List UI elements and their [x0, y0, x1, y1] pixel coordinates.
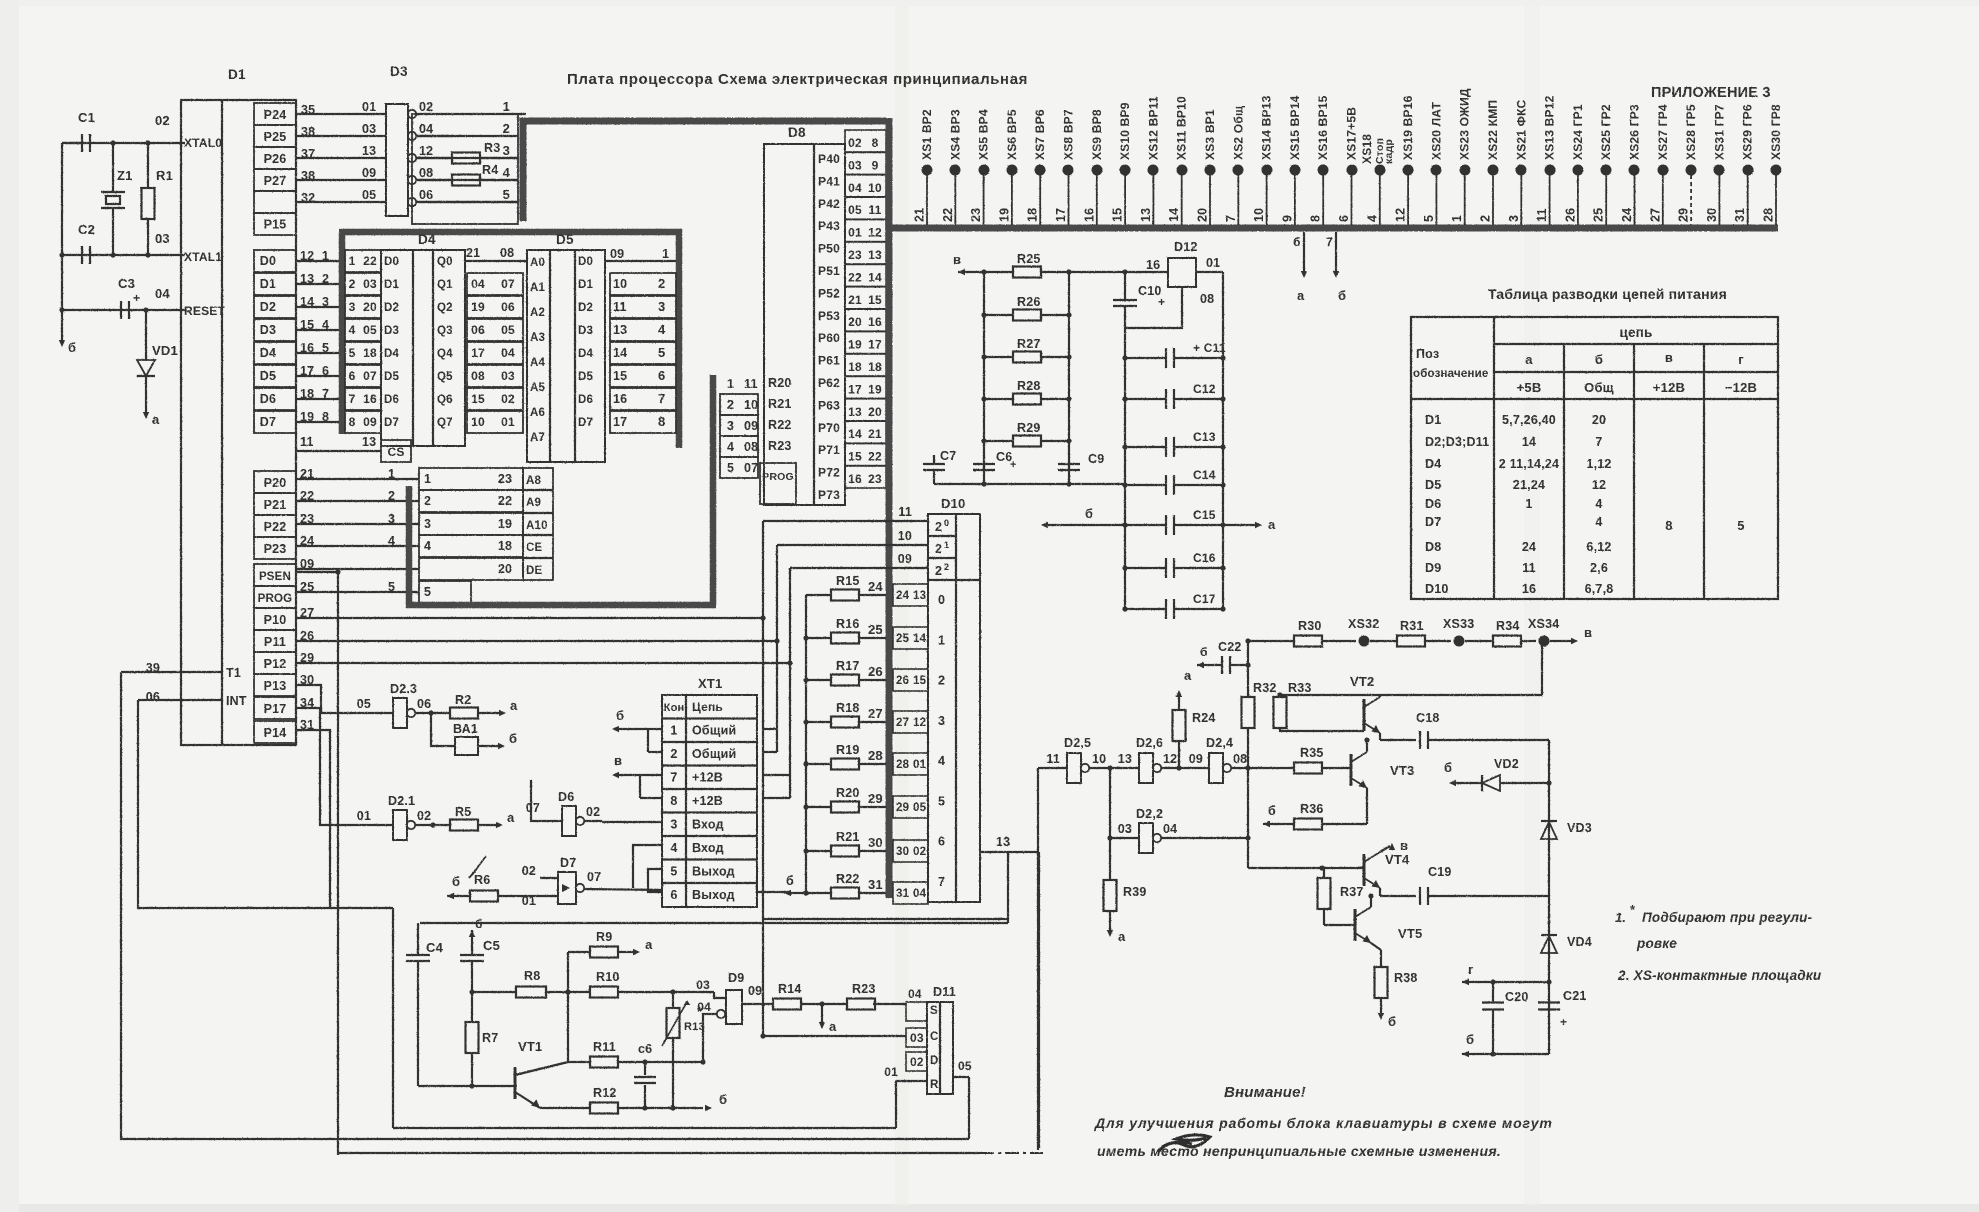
- link cell 06 05 (D4-D5 row 3): [467, 319, 523, 341]
- svg-text:XS11 ВР10: XS11 ВР10: [1175, 96, 1189, 160]
- svg-text:P52: P52: [818, 286, 840, 300]
- power table row D1: [1425, 413, 1606, 427]
- svg-text:XS23 ОЖИД: XS23 ОЖИД: [1458, 88, 1472, 160]
- D5 cell A7: [530, 432, 545, 444]
- svg-text:Q0: Q0: [437, 256, 453, 268]
- svg-text:09: 09: [363, 415, 377, 429]
- svg-text:17: 17: [471, 346, 485, 360]
- svg-text:VT1: VT1: [518, 1039, 542, 1054]
- flip-flop D11: [927, 985, 956, 1094]
- svg-text:XS26 ГР3: XS26 ГР3: [1628, 104, 1642, 160]
- svg-text:+12В: +12В: [692, 794, 723, 808]
- D8 pin cell 04 10: [845, 175, 886, 197]
- keyboard box top: [420, 922, 1008, 924]
- svg-text:09: 09: [748, 984, 762, 998]
- capacitor C1: [62, 110, 95, 152]
- svg-text:Выход: Выход: [692, 888, 735, 902]
- svg-text:3: 3: [1507, 215, 1521, 222]
- pin number 34: [300, 696, 314, 710]
- wire D9 input 03: [714, 992, 726, 998]
- svg-text:P73: P73: [818, 488, 840, 502]
- resistor R14: [742, 982, 847, 1010]
- svg-text:D11: D11: [933, 985, 956, 999]
- svg-text:б: б: [1085, 506, 1093, 521]
- svg-text:R18: R18: [836, 701, 860, 715]
- svg-text:5,7,26,40: 5,7,26,40: [1502, 413, 1556, 427]
- svg-text:17: 17: [848, 382, 862, 396]
- svg-text:09: 09: [362, 166, 376, 180]
- svg-text:08: 08: [419, 166, 433, 180]
- svg-text:01: 01: [848, 226, 862, 240]
- D10 cell 5: [938, 794, 945, 808]
- svg-text:XS4 ВР3: XS4 ВР3: [948, 109, 962, 160]
- wire XTAL0 net: [62, 140, 185, 310]
- svg-text:28: 28: [1762, 208, 1776, 222]
- wire D6 input: [531, 780, 562, 821]
- svg-text:09: 09: [1189, 752, 1203, 766]
- pin cell P22: [254, 515, 296, 537]
- svg-text:05: 05: [913, 802, 927, 814]
- svg-text:03: 03: [501, 369, 515, 383]
- svg-text:XTAL1: XTAL1: [184, 250, 222, 264]
- svg-text:D2: D2: [260, 300, 276, 314]
- svg-text:б: б: [1338, 288, 1346, 303]
- svg-text:D7: D7: [260, 415, 276, 429]
- svg-text:P12: P12: [264, 657, 287, 671]
- svg-text:20: 20: [1196, 208, 1210, 222]
- bus cell 1 22 (D4 input row 0): [345, 250, 381, 272]
- D5 cell D2 in: [578, 302, 593, 314]
- D5 cell A3: [530, 332, 545, 344]
- svg-text:29: 29: [896, 802, 909, 814]
- IC D4 body: [381, 232, 465, 446]
- inverter D2.6: [1118, 736, 1178, 783]
- IC D12: [1146, 240, 1220, 306]
- D10 cell 2:1: [935, 540, 949, 556]
- svg-text:13: 13: [848, 405, 862, 419]
- wire VT1 emitter: [515, 1092, 590, 1108]
- svg-text:27: 27: [1648, 208, 1662, 222]
- D8 cell P43: [818, 219, 840, 233]
- svg-text:P20: P20: [264, 476, 287, 490]
- svg-text:Q7: Q7: [437, 417, 453, 429]
- wire center rail: [565, 952, 570, 1062]
- svg-text:12: 12: [1163, 752, 1177, 766]
- svg-text:08: 08: [1200, 292, 1214, 306]
- svg-text:R7: R7: [482, 1031, 498, 1045]
- connector pad XS15 (XS15 ВР14): [1280, 95, 1302, 225]
- IC D1 body: [181, 67, 296, 745]
- svg-text:21,24: 21,24: [1513, 478, 1545, 492]
- svg-text:P41: P41: [818, 174, 840, 188]
- wire P10 trunk: [296, 615, 766, 620]
- D8 pin cell 20 16: [845, 309, 886, 331]
- svg-text:XS9 ВР8: XS9 ВР8: [1090, 109, 1104, 160]
- svg-text:C1: C1: [78, 110, 95, 125]
- svg-text:T1: T1: [226, 666, 241, 680]
- resistor R1: [142, 143, 174, 255]
- svg-text:а: а: [507, 810, 515, 825]
- svg-text:18: 18: [498, 539, 512, 553]
- diode VD3: [1541, 821, 1592, 839]
- svg-text:14: 14: [613, 346, 627, 360]
- connector pad XS22 (XS22 КМП): [1479, 100, 1501, 225]
- D5 cell A0: [530, 257, 545, 269]
- wire INT feed: [138, 700, 393, 908]
- svg-text:A7: A7: [530, 432, 545, 444]
- D8 cell P51: [818, 264, 840, 278]
- svg-text:4: 4: [349, 323, 356, 337]
- svg-text:19: 19: [997, 208, 1011, 222]
- side note 1: [1615, 902, 1813, 951]
- connector pad XS3 (XS3 ВР1): [1196, 109, 1218, 225]
- svg-text:09: 09: [744, 419, 758, 433]
- svg-text:21: 21: [913, 208, 927, 222]
- svg-text:P14: P14: [264, 726, 287, 740]
- svg-text:P21: P21: [264, 498, 287, 512]
- svg-text:P22: P22: [264, 520, 287, 534]
- svg-text:в: в: [1584, 625, 1592, 640]
- bus cell 8 09 (D4 input row 7): [345, 411, 381, 433]
- wire P14 stub: [296, 730, 330, 908]
- svg-text:PROG: PROG: [258, 593, 293, 605]
- svg-text:C5: C5: [483, 938, 500, 953]
- svg-text:A9: A9: [526, 497, 541, 509]
- connector pad XS26 (XS26 ГР3): [1620, 104, 1642, 225]
- D8 left pin cell 2 10: [720, 394, 758, 415]
- arrow б (R22 rail): [784, 874, 806, 896]
- wire D12 pin16: [1125, 271, 1168, 273]
- svg-text:б: б: [1200, 645, 1208, 659]
- svg-text:P23: P23: [264, 542, 287, 556]
- D10 cell 2:2: [935, 562, 949, 578]
- svg-text:D1: D1: [228, 67, 246, 82]
- svg-text:P70: P70: [818, 421, 840, 435]
- capacitor C21: [1538, 989, 1587, 1029]
- keyboard box left: [392, 908, 394, 1128]
- svg-text:Подбирают при регули-: Подбирают при регули-: [1642, 910, 1813, 925]
- svg-text:5: 5: [349, 346, 356, 360]
- svg-text:в: в: [953, 252, 961, 267]
- resistor R18: [803, 701, 928, 733]
- svg-text:Таблица разводки цепей пита: Таблица разводки цепей питания: [1488, 286, 1727, 302]
- D8 pin cell 05 11: [845, 197, 886, 219]
- svg-text:XS13 ВР12: XS13 ВР12: [1543, 95, 1557, 160]
- svg-text:ПРИЛОЖЕНИЕ 3: ПРИЛОЖЕНИЕ 3: [1651, 85, 1771, 101]
- D11 pin 05: [953, 1059, 972, 1077]
- svg-text:R35: R35: [1300, 746, 1324, 760]
- pin number 27: [300, 606, 314, 620]
- pin cell P25 / pin 38: [254, 125, 386, 147]
- svg-text:D5: D5: [578, 371, 594, 383]
- svg-text:R3: R3: [484, 141, 500, 155]
- thick frame around D4-D5 top: [339, 229, 682, 236]
- arrow а (R14/R23): [819, 1001, 837, 1034]
- svg-text:1: 1: [944, 540, 949, 550]
- svg-text:R14: R14: [778, 982, 802, 996]
- svg-text:R26: R26: [1017, 295, 1041, 309]
- P2x long cell row 1 (pins 22): [296, 489, 523, 512]
- svg-text:8: 8: [1665, 518, 1672, 533]
- resistor R4: [416, 163, 518, 186]
- thick horizontal XS bus: [886, 225, 1778, 232]
- D8 PROG cell: [760, 463, 796, 504]
- svg-text:C18: C18: [1416, 711, 1440, 725]
- svg-text:XS8 ВР7: XS8 ВР7: [1062, 109, 1076, 160]
- svg-text:P43: P43: [818, 219, 840, 233]
- thick frame bottom of D4/D5 block: [406, 375, 716, 605]
- svg-text:R34: R34: [1496, 619, 1520, 633]
- D8 pin cell 03 9: [845, 152, 886, 174]
- arrow б bottom: [1462, 1032, 1549, 1057]
- svg-text:01: 01: [884, 1065, 898, 1079]
- svg-text:18: 18: [1026, 208, 1040, 222]
- svg-text:а: а: [829, 1019, 837, 1034]
- svg-text:г: г: [1468, 962, 1474, 977]
- D8 pin cell 17 19: [845, 376, 886, 398]
- svg-text:24: 24: [1620, 208, 1634, 222]
- svg-text:15: 15: [613, 369, 627, 383]
- resistor R23: [847, 982, 906, 1010]
- pin cell PSEN: [254, 564, 296, 586]
- wire D2.2 out: [1161, 837, 1248, 839]
- D3 output bubble pin 02: [408, 100, 434, 118]
- D3 output bubble pin 12: [408, 144, 434, 162]
- svg-text:P50: P50: [818, 242, 840, 256]
- svg-text:2: 2: [935, 564, 942, 578]
- svg-text:14: 14: [868, 270, 882, 284]
- svg-text:15: 15: [913, 675, 927, 687]
- svg-text:R20: R20: [836, 786, 860, 800]
- svg-text:в: в: [1665, 350, 1673, 365]
- D8 cell P73: [818, 488, 840, 502]
- resistor R23 (in D8): [768, 439, 792, 453]
- svg-text:15: 15: [848, 450, 862, 464]
- svg-text:D0: D0: [260, 254, 276, 268]
- svg-text:D0: D0: [384, 256, 399, 268]
- svg-text:R13: R13: [684, 1021, 705, 1033]
- svg-text:18: 18: [868, 360, 882, 374]
- svg-text:15: 15: [868, 293, 882, 307]
- svg-text:D3: D3: [578, 325, 593, 337]
- svg-text:27: 27: [868, 706, 883, 721]
- connector pad XS5 (XS5 ВР4): [969, 109, 991, 225]
- resistor R17: [803, 659, 928, 691]
- pad XS32: [1348, 617, 1379, 647]
- svg-text:22: 22: [363, 254, 377, 268]
- svg-text:11: 11: [898, 505, 912, 519]
- svg-text:R23: R23: [768, 439, 792, 453]
- svg-text:D6: D6: [578, 394, 593, 406]
- D8 pin cell 15 22: [845, 444, 886, 466]
- svg-text:D7: D7: [578, 417, 593, 429]
- thick frame right of D5: [676, 229, 683, 448]
- svg-text:D2: D2: [578, 302, 593, 314]
- D4 cell D0: [384, 256, 399, 268]
- wire X71 pin4: [633, 845, 662, 888]
- connector pad XS25 (XS25 ГР2): [1592, 104, 1614, 225]
- svg-text:P63: P63: [818, 398, 840, 412]
- connector pad XS7 (XS7 ВР6): [1026, 109, 1048, 225]
- svg-text:б: б: [786, 874, 794, 888]
- svg-text:02: 02: [417, 809, 431, 823]
- svg-text:2: 2: [944, 562, 949, 572]
- svg-text:3: 3: [727, 419, 734, 433]
- D8 cell P41: [818, 174, 840, 188]
- svg-text:C3: C3: [118, 276, 135, 291]
- pin label 03: [155, 231, 170, 246]
- svg-text:P13: P13: [264, 679, 287, 693]
- svg-text:D5: D5: [1425, 478, 1441, 492]
- svg-text:13: 13: [1139, 208, 1153, 222]
- wire VT5 collector: [1370, 896, 1372, 907]
- power table row D2;D3;D11: [1425, 435, 1603, 449]
- pin cell P21: [254, 493, 296, 515]
- D4 cell Q4: [437, 348, 453, 360]
- bus cell 6 07 (D4 input row 5): [345, 365, 381, 387]
- pin label 04: [155, 286, 170, 301]
- svg-text:3: 3: [424, 517, 431, 531]
- svg-text:P51: P51: [818, 264, 840, 278]
- bus cell 3 20 (D4 input row 2): [345, 296, 381, 318]
- arrow а (C15 row right): [1223, 517, 1276, 532]
- svg-text:23: 23: [868, 472, 882, 486]
- pin cell P27 / pin 38: [254, 169, 386, 191]
- svg-text:C17: C17: [1193, 592, 1216, 606]
- svg-text:б: б: [1466, 1032, 1474, 1047]
- D4 cell D3: [384, 325, 399, 337]
- svg-text:04: 04: [908, 987, 922, 1001]
- connector pad XS21 (XS21 ФКС): [1507, 100, 1529, 225]
- svg-text:б: б: [1293, 235, 1301, 249]
- svg-text:8: 8: [1309, 215, 1323, 222]
- bus cell 4 05 (D4 input row 3): [345, 319, 381, 341]
- connector pad XS30 (XS30 ГР8): [1762, 104, 1784, 225]
- wire D6 output: [584, 821, 602, 822]
- svg-text:D6: D6: [1425, 497, 1441, 511]
- D4 cell Q0: [437, 256, 453, 268]
- connector pad XS27 (XS27 ГР4): [1648, 104, 1670, 225]
- svg-text:C4: C4: [426, 940, 444, 955]
- wire D7 output: [584, 889, 662, 890]
- svg-text:6: 6: [670, 888, 677, 902]
- capacitor C7: [923, 449, 956, 484]
- svg-text:C15: C15: [1193, 508, 1216, 522]
- svg-text:7: 7: [670, 771, 677, 785]
- svg-text:P24: P24: [264, 108, 287, 122]
- D8 pin cell 13 20: [845, 399, 886, 421]
- svg-text:20: 20: [363, 300, 377, 314]
- svg-text:VT3: VT3: [1390, 763, 1414, 778]
- arrow а below VD1: [143, 376, 160, 427]
- svg-text:XS18: XS18: [1360, 134, 1374, 164]
- svg-text:Вход: Вход: [692, 818, 724, 832]
- svg-text:17: 17: [613, 415, 627, 429]
- D4 cell D4: [384, 348, 400, 360]
- svg-text:1: 1: [424, 472, 431, 486]
- inverter D2.5: [1046, 736, 1106, 783]
- resistor R3: [416, 141, 518, 164]
- svg-text:в: в: [1400, 838, 1408, 853]
- pad XS34: [1528, 617, 1559, 647]
- svg-text:25: 25: [896, 633, 910, 645]
- D3 output bubble pin 04: [408, 122, 434, 140]
- svg-text:A5: A5: [530, 382, 546, 394]
- resistor R22: [803, 872, 928, 904]
- svg-text:Внимание!: Внимание!: [1224, 1084, 1306, 1101]
- svg-text:04: 04: [501, 346, 515, 360]
- svg-text:19: 19: [471, 300, 485, 314]
- bus net 6 drop arrow а: [1293, 232, 1307, 303]
- scribble over word: [1158, 1135, 1210, 1152]
- wire D3 out 1: [416, 113, 526, 115]
- svg-text:XS10 ВР9: XS10 ВР9: [1118, 102, 1132, 160]
- svg-text:2: 2: [727, 398, 734, 412]
- D10 cell 2:0: [935, 518, 949, 534]
- wire D2.6-D2.4: [1161, 765, 1209, 770]
- svg-text:03: 03: [363, 277, 377, 291]
- capacitor C14: [1122, 468, 1225, 495]
- transistor VT1: [418, 1039, 542, 1099]
- svg-text:07: 07: [363, 369, 377, 383]
- svg-text:P25: P25: [264, 130, 287, 144]
- bus cell 7 16 (D4 input row 6): [345, 388, 381, 410]
- D1 data pin cell D4 pin 16: [254, 341, 345, 364]
- svg-text:г: г: [1738, 352, 1744, 367]
- svg-text:5: 5: [670, 865, 677, 879]
- P2x long cell row 3 (pins 24): [296, 534, 523, 557]
- pin number 29: [300, 651, 314, 665]
- svg-text:XS16 ВР15: XS16 ВР15: [1316, 95, 1330, 160]
- svg-text:CS: CS: [387, 445, 404, 459]
- svg-text:01: 01: [1206, 256, 1220, 270]
- wire VT2 emitter: [1364, 733, 1416, 743]
- svg-text:11: 11: [1535, 208, 1549, 222]
- inverter D6: [526, 790, 601, 836]
- svg-text:15: 15: [1111, 208, 1125, 222]
- svg-text:02: 02: [522, 864, 536, 878]
- svg-text:D4: D4: [1425, 457, 1441, 471]
- D4 cell Q1: [437, 279, 453, 291]
- svg-text:а: а: [1118, 929, 1126, 944]
- svg-text:XS20 ЛАТ: XS20 ЛАТ: [1429, 101, 1443, 160]
- svg-text:1: 1: [938, 633, 945, 647]
- D10 cell 4: [938, 754, 945, 768]
- svg-text:б: б: [452, 874, 460, 889]
- connector pad XS11 (XS11 ВР10): [1167, 96, 1189, 225]
- svg-text:+12В: +12В: [1653, 380, 1685, 395]
- D4 cell D5: [384, 371, 400, 383]
- svg-text:R24: R24: [1192, 711, 1216, 725]
- svg-text:05: 05: [848, 203, 862, 217]
- svg-text:28: 28: [896, 759, 910, 771]
- svg-text:01: 01: [913, 759, 927, 771]
- pin cell PROG: [254, 586, 296, 608]
- svg-text:11: 11: [1046, 752, 1060, 766]
- svg-text:02: 02: [586, 805, 600, 819]
- svg-text:30: 30: [896, 846, 909, 858]
- wire PSEN rail down: [337, 572, 339, 1155]
- svg-text:0: 0: [938, 593, 945, 607]
- svg-text:13: 13: [613, 323, 627, 337]
- D1 data pin cell D3 pin 15: [254, 318, 345, 341]
- svg-text:16: 16: [868, 315, 882, 329]
- resistor R8: [469, 969, 568, 998]
- D3 input pin 03: [362, 122, 376, 136]
- svg-text:06: 06: [419, 188, 433, 202]
- svg-text:29: 29: [868, 791, 883, 806]
- svg-text:P27: P27: [264, 174, 287, 188]
